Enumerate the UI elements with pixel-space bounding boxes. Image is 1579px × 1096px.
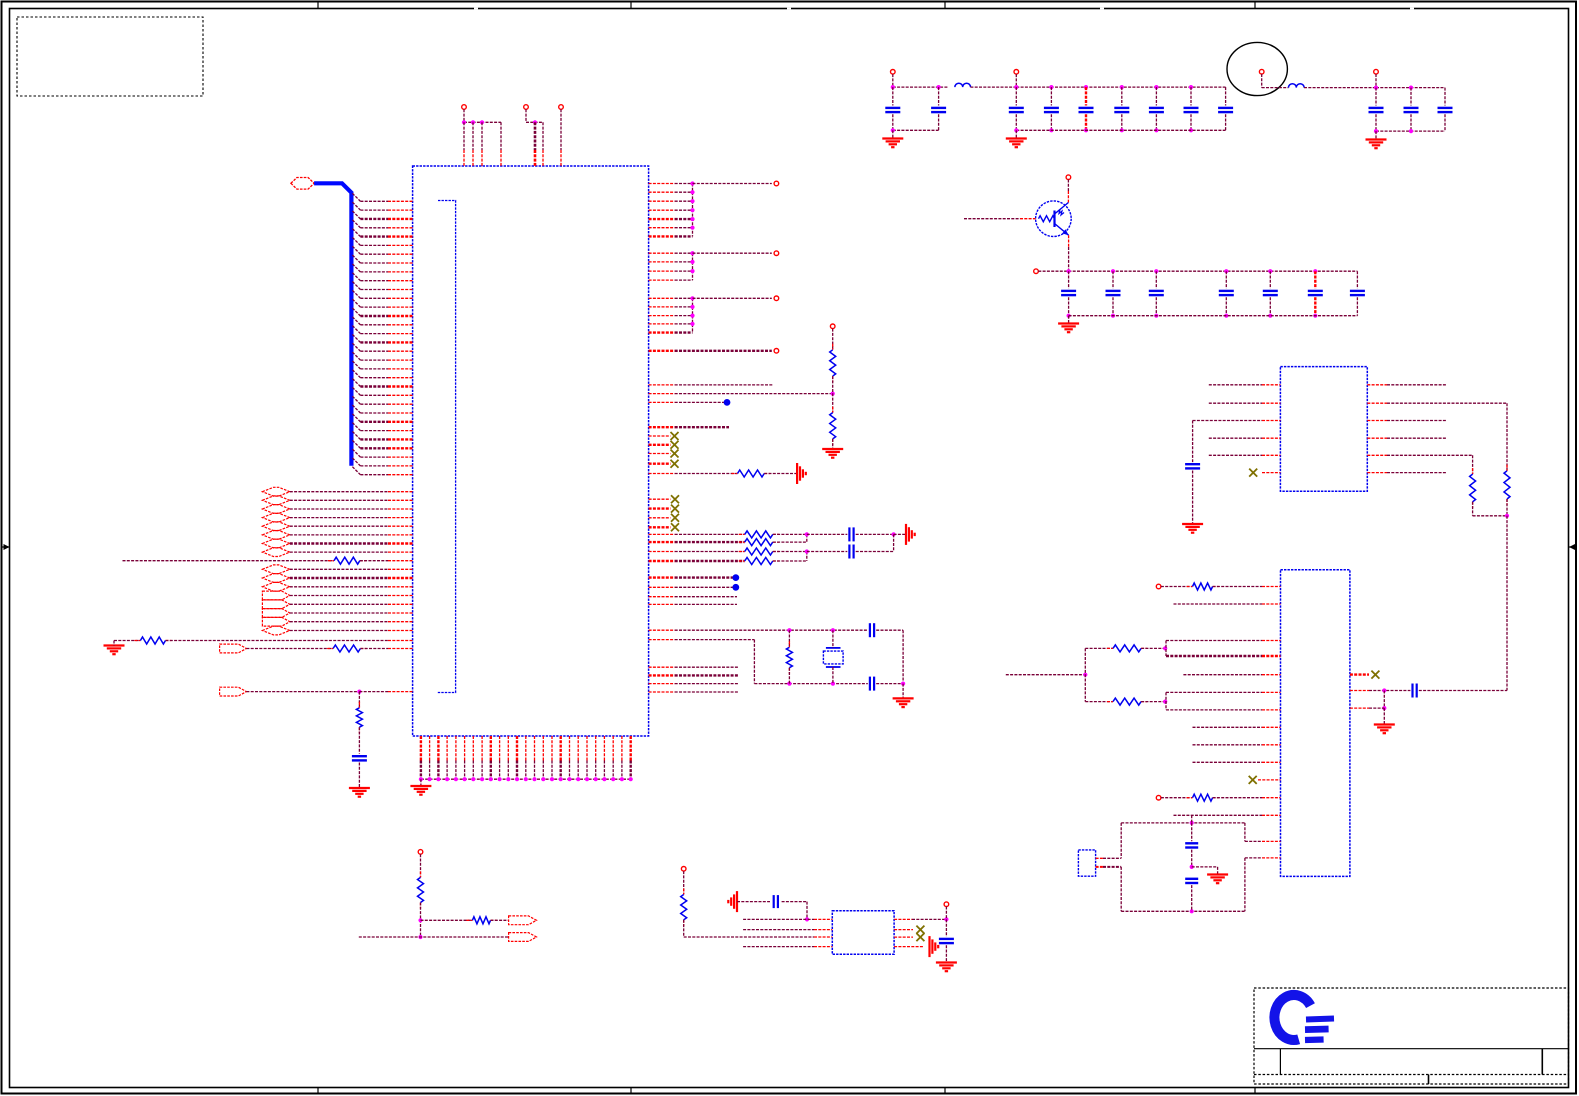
wire: [290, 542, 388, 544]
wire: [290, 603, 388, 605]
capacitor C20: [352, 756, 367, 760]
pin U1: [388, 595, 413, 597]
capacitor C6: [1114, 108, 1129, 112]
wire: [945, 907, 947, 920]
wire: [693, 252, 772, 254]
capacitor C12: [1438, 108, 1453, 112]
pin U1 right: [649, 639, 675, 641]
pin U4 left: [1262, 586, 1281, 588]
junction: [454, 777, 458, 781]
junction: [1409, 129, 1413, 133]
port (hex): [262, 496, 289, 505]
power port VP1: [462, 105, 467, 110]
wire: [1190, 114, 1192, 130]
junction: [1049, 128, 1053, 132]
capacitor C11: [1404, 108, 1419, 112]
wire: [290, 577, 388, 579]
wire: [773, 560, 807, 562]
pin U1 right: [649, 235, 675, 237]
wire: [675, 331, 693, 333]
wire: [463, 122, 465, 150]
pin U1: [388, 603, 413, 605]
resistor R21: [1504, 465, 1510, 505]
pin U1 right: [649, 463, 671, 465]
title block divider: [1279, 1049, 1281, 1075]
ground: [1374, 725, 1395, 734]
pin U1 right: [649, 576, 675, 578]
ground: [882, 139, 903, 148]
capacitor C5: [1079, 108, 1094, 112]
wire: [683, 871, 685, 894]
port (flag): [262, 617, 289, 626]
wire: [464, 121, 501, 123]
wire: [463, 109, 465, 122]
pin U5 left: [814, 929, 832, 931]
junction: [787, 682, 791, 686]
pin U1 right: [649, 270, 675, 272]
junction: [690, 217, 694, 221]
wire: [1085, 87, 1087, 105]
wire: [1356, 271, 1358, 288]
port (hex): [262, 522, 289, 531]
junction: [611, 777, 615, 781]
pin U1: [388, 621, 413, 623]
wire: [876, 629, 903, 631]
notes box: [17, 17, 203, 96]
IC U4: [1281, 570, 1350, 877]
wire: [1015, 114, 1017, 130]
pin U1 right: [649, 691, 675, 693]
pin U4 left: [1262, 726, 1281, 728]
junction: [1067, 314, 1071, 318]
pin U1 right: [649, 473, 675, 475]
wire: [1191, 885, 1193, 911]
junction: [480, 120, 484, 124]
wire: [806, 552, 808, 562]
pin U1 right: [649, 183, 675, 185]
capacitor C8: [1184, 108, 1199, 112]
pin U1 right: [649, 191, 675, 193]
wire: [1068, 297, 1070, 316]
no-connect: [671, 495, 679, 503]
title block row line: [1254, 1074, 1569, 1076]
pin U4 left: [1262, 603, 1281, 605]
wire: [1376, 87, 1445, 89]
wire: [743, 929, 814, 931]
pin U1: [388, 640, 413, 642]
wire: [773, 551, 807, 553]
resistor R20: [1470, 468, 1476, 508]
power port VP15: [944, 902, 949, 907]
capacitor C30: [939, 939, 954, 943]
junction: [1163, 700, 1167, 704]
wire: [290, 595, 388, 597]
wire: [358, 763, 360, 789]
wire: [1217, 867, 1219, 875]
wire: [912, 918, 946, 920]
pin U1 right: [649, 444, 671, 446]
IC U5: [832, 911, 894, 955]
power port VP5: [418, 850, 423, 855]
pin U1 top: [500, 150, 502, 166]
junction: [690, 199, 694, 203]
ground (rotated): [906, 524, 915, 545]
inductor L2: [1289, 84, 1305, 88]
wire: [1209, 384, 1262, 386]
resistor: [739, 548, 779, 555]
pin U3 left: [1262, 402, 1280, 404]
wire: [1269, 271, 1271, 288]
wire: [684, 936, 814, 938]
pin U1 right: [649, 596, 675, 598]
pin U1: [388, 525, 413, 527]
wire: [359, 936, 509, 938]
junction: [831, 392, 835, 396]
wire: [1085, 114, 1087, 130]
wire: [1387, 437, 1447, 439]
junction: [428, 777, 432, 781]
wire: [1174, 814, 1263, 816]
ground (rotated): [797, 463, 806, 484]
port (flag): [509, 916, 537, 925]
pin U1: [388, 648, 413, 650]
no-connect: [1249, 469, 1257, 477]
junction: [541, 777, 545, 781]
junction: [1313, 269, 1317, 273]
junction: [532, 777, 536, 781]
junction: [489, 777, 493, 781]
junction: [462, 120, 466, 124]
junction: [891, 128, 895, 132]
pin Q1 base: [1020, 218, 1036, 220]
no-connect: [1371, 671, 1379, 679]
pin U4 left: [1262, 744, 1281, 746]
junction: [471, 777, 475, 781]
pin U1: [388, 612, 413, 614]
wire: [675, 401, 724, 403]
wire: [1209, 402, 1262, 404]
wire: [1387, 402, 1507, 404]
wire: [1192, 421, 1194, 463]
junction: [1190, 865, 1194, 869]
pin Q1 collector: [1067, 191, 1069, 203]
junction: [690, 181, 694, 185]
port (hex): [262, 548, 289, 557]
wire: [675, 191, 693, 193]
pin U4 left: [1262, 814, 1281, 816]
wire: [290, 534, 388, 536]
capacitor C29: [774, 895, 778, 908]
pin U1 right: [649, 453, 671, 455]
capacitor C28: [1413, 684, 1417, 698]
pin U1 right: [649, 252, 675, 254]
wire: [1069, 315, 1358, 317]
wire: [675, 541, 745, 543]
pin U1: [388, 534, 413, 536]
wire: [1103, 857, 1121, 859]
wire: [764, 473, 797, 475]
junction: [602, 777, 606, 781]
wire: [114, 640, 140, 642]
port (flag): [220, 687, 247, 696]
pin U3 left: [1262, 420, 1280, 422]
wire: [1192, 471, 1194, 525]
resistor R12: [327, 645, 366, 652]
pin U1 right: [649, 674, 675, 676]
off-page connector: [774, 296, 779, 301]
wire: [542, 122, 544, 150]
ground: [936, 963, 957, 972]
junction: [445, 777, 449, 781]
no-connect: [671, 450, 679, 458]
junction: [944, 917, 948, 921]
wire: [773, 533, 807, 535]
wire: [1387, 384, 1447, 386]
wire: [1262, 87, 1289, 89]
wire: [1191, 815, 1193, 823]
capacitor C16: [1219, 291, 1234, 295]
wire: [290, 551, 388, 553]
port (hex): [262, 574, 289, 583]
power port VP9: [1374, 69, 1379, 74]
pin U1: [388, 691, 413, 693]
capacitor C13: [1061, 291, 1076, 295]
ground: [893, 698, 914, 707]
power port VP12: [1156, 584, 1161, 589]
capacitor C18: [1308, 291, 1323, 295]
wire: [360, 560, 388, 562]
wire: [1006, 674, 1086, 676]
wire: [893, 86, 948, 88]
wire: [1261, 74, 1263, 88]
wire: [675, 473, 738, 475]
no-connect: [671, 432, 679, 440]
wire: [1121, 114, 1123, 130]
no-connect dot: [732, 574, 739, 581]
pin U1: [388, 499, 413, 501]
wire: [675, 683, 738, 685]
junction: [690, 314, 694, 318]
ground: [1058, 324, 1079, 333]
capacitor C9: [1218, 108, 1233, 112]
wire: [1120, 823, 1122, 858]
junction: [1111, 269, 1115, 273]
pin U1 right: [649, 541, 675, 543]
junction: [690, 269, 694, 273]
pin U1 right: [649, 560, 675, 562]
junction: [1224, 269, 1228, 273]
wire: [938, 87, 940, 105]
junction: [620, 777, 624, 781]
pin U1: [388, 577, 413, 579]
wire: [675, 235, 693, 237]
wire: [1112, 271, 1114, 288]
wire: [806, 534, 808, 542]
wire: [1016, 86, 1225, 88]
capacitor C7: [1149, 108, 1164, 112]
pin U1: [388, 560, 413, 562]
off-page connector: [774, 251, 779, 256]
pin U1: [388, 551, 413, 553]
wire: [675, 209, 693, 211]
wire: [1269, 297, 1271, 316]
wire: [1506, 499, 1508, 516]
wire: [359, 691, 388, 693]
resistor: [739, 531, 779, 538]
pin U3 right: [1367, 402, 1387, 404]
pin U4 left: [1262, 640, 1281, 642]
pin U4 right: [1350, 673, 1369, 675]
wire: [481, 122, 483, 150]
pin U1 right: [649, 526, 671, 528]
wire: [1155, 114, 1157, 130]
wire: [753, 640, 755, 684]
pin U1 right: [649, 498, 671, 500]
junction: [690, 260, 694, 264]
port (flag): [262, 600, 289, 609]
no-connect: [671, 441, 679, 449]
junction: [690, 190, 694, 194]
junction: [1313, 314, 1317, 318]
pin U3 right: [1367, 472, 1387, 474]
wire: [1444, 88, 1446, 106]
junction: [1084, 85, 1088, 89]
wire: [675, 533, 745, 535]
pin U3 left: [1262, 454, 1280, 456]
wire: [1141, 647, 1165, 649]
junction: [1224, 314, 1228, 318]
pin U5 left: [814, 918, 832, 920]
pin U1 right: [649, 306, 675, 308]
wire: [1165, 692, 1167, 710]
port (flag): [220, 644, 247, 653]
wire: [675, 261, 693, 263]
wire: [675, 674, 738, 676]
pin U1 top: [534, 150, 537, 166]
wire: [945, 919, 947, 936]
wire: [1016, 129, 1225, 131]
no-connect: [916, 933, 924, 941]
wire: [290, 630, 388, 632]
resistor R10: [328, 557, 366, 564]
junction: [419, 777, 423, 781]
pin U1 right: [649, 297, 675, 299]
junction: [1189, 85, 1193, 89]
wire: [807, 551, 848, 553]
wire: [1209, 454, 1262, 456]
wire: [832, 667, 834, 684]
pin U1 top: [472, 150, 474, 166]
title block divider: [1541, 1049, 1543, 1075]
power port VP8: [1259, 69, 1264, 74]
ground (rotated): [728, 891, 737, 912]
wire: [1103, 866, 1121, 868]
junction: [559, 777, 563, 781]
wire: [1121, 910, 1245, 912]
title block frame: [1254, 988, 1569, 1084]
wire: [773, 541, 807, 543]
wire: [675, 560, 745, 562]
no-connect: [1249, 776, 1257, 784]
pin U4 left: [1262, 797, 1281, 799]
wire: [1193, 761, 1263, 763]
wire: [123, 560, 335, 562]
power port VP14: [681, 867, 686, 872]
wire: [806, 902, 808, 920]
pin U3 right: [1367, 454, 1387, 456]
wire: [892, 114, 894, 130]
junction: [1154, 85, 1158, 89]
wire: [1472, 455, 1474, 474]
wire: [1209, 437, 1262, 439]
wire: [945, 945, 947, 962]
wire: [1376, 130, 1445, 132]
junction: [690, 208, 694, 212]
junction: [690, 305, 694, 309]
wire: [1369, 690, 1410, 692]
pin U1: [388, 586, 413, 588]
pin U1: [388, 630, 413, 632]
pin U1 right: [649, 209, 675, 211]
pin U1 right: [649, 200, 675, 202]
junction: [576, 777, 580, 781]
transistor Q1: [1036, 201, 1072, 237]
ground: [410, 786, 431, 795]
pin U1: [388, 568, 413, 570]
pin Q1 emitter: [1068, 235, 1070, 247]
capacitor C22: [849, 545, 853, 559]
junction: [1014, 85, 1018, 89]
pin U4 left: [1262, 840, 1281, 842]
wire: [683, 920, 685, 937]
wire: [892, 74, 894, 87]
port (hex): [262, 539, 289, 548]
wire: [1410, 114, 1412, 131]
wire: [1193, 726, 1263, 728]
pin U1 right: [649, 586, 675, 588]
pin U1 right: [649, 315, 675, 317]
resistor R23: [1107, 645, 1147, 652]
wire: [166, 640, 389, 642]
wire: [832, 630, 834, 648]
junction: [1014, 128, 1018, 132]
resistor R22: [1187, 583, 1219, 590]
IC U1 internal bracket: [437, 201, 455, 693]
wire: [1193, 744, 1263, 746]
ground: [822, 449, 843, 458]
wire: [1245, 840, 1262, 842]
wire: [1068, 247, 1070, 271]
capacitor C26: [1185, 843, 1198, 847]
junction: [1111, 314, 1115, 318]
power port VP6: [891, 70, 896, 75]
junction: [1190, 821, 1194, 825]
wire: [1193, 420, 1262, 422]
wire: [1038, 270, 1357, 272]
wire: [246, 648, 333, 650]
wire: [1085, 647, 1113, 649]
no-connect: [671, 460, 679, 468]
junction: [1083, 673, 1087, 677]
port (hex): [262, 531, 289, 540]
pin U1 right: [649, 401, 675, 403]
wire: [1068, 316, 1070, 324]
wire: [675, 629, 868, 631]
pin U1 right: [649, 603, 675, 605]
wire: [1161, 797, 1193, 799]
wire: [893, 129, 939, 131]
border right centre arrow: [1569, 544, 1577, 550]
